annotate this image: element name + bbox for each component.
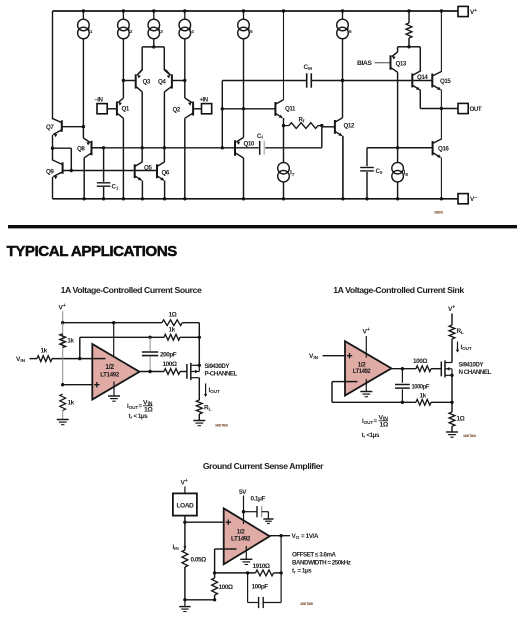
resistor RL c2 [449,325,464,363]
wire I4 to Q2 emitter node [183,39,186,83]
svg-text:IOUT: IOUT [127,403,138,410]
resistor 1910ohm [253,563,283,576]
wire Q11 emitter node [282,118,285,163]
wire VIN input [30,358,38,360]
svg-text:1492 TA05: 1492 TA05 [300,602,313,606]
svg-text:1k: 1k [169,327,176,334]
svg-text:Q12: Q12 [344,123,355,130]
svg-text:100Ω: 100Ω [413,358,427,365]
capacitor C0 [360,148,383,201]
svg-text:= 1V/A: = 1V/A [301,533,319,540]
resistor 1ohm [162,312,199,326]
svg-text:Q3: Q3 [143,79,151,86]
wire resistor to Q14 collector [409,47,420,72]
svg-text:IIN: IIN [173,544,180,551]
svg-text:= 1μs: = 1μs [298,568,313,575]
svg-text:Q11: Q11 [285,106,296,113]
terminal OUT [441,103,481,113]
capacitor 0.1uF [244,496,269,520]
title sense amplifier circuit [203,461,324,471]
wire output c2 [391,367,416,370]
title current source circuit [61,285,202,295]
transistor Q4 [158,70,185,92]
svg-text:RL: RL [204,405,212,413]
ground c3 left [179,600,190,612]
capacitor CM [304,64,313,88]
current source I2 [118,9,133,39]
wire Q12 emitter to V- rail [341,136,344,201]
svg-text:–: – [474,195,477,201]
wire VIN to + input [323,355,346,357]
wire left vertical from V+ rail [52,11,54,120]
wire Q5 emitter to V- rail [141,181,144,201]
arrow IOUT c1 [204,384,220,398]
wire Q9 emitter to V- rail [52,177,54,199]
wire op-amp ground stub [113,382,115,397]
transistor Q2 [173,98,194,118]
label IIN arrow [173,522,187,551]
wire output c3 [270,534,290,573]
resistor RL c1 [196,400,211,420]
label 5V [239,489,247,496]
wire Q9 collector up [52,148,54,160]
wire I3 to Q3/Q4 emitters [138,39,170,75]
label BIAS [357,60,391,67]
svg-text:Si9430DY: Si9430DY [205,363,231,370]
svg-text:1Ω: 1Ω [380,422,389,429]
svg-text:1492 TA03: 1492 TA03 [215,424,228,428]
wire bottom V- rail [53,198,459,200]
svg-text:C0: C0 [376,168,383,175]
resistor RF [284,117,324,129]
svg-text:I6: I6 [347,27,352,35]
ground op-amp c2 [360,392,372,397]
svg-text:LOAD: LOAD [176,503,194,510]
arrow IOUT c2 [456,342,472,353]
svg-text:I5: I5 [248,27,253,35]
wire V+ top rail [53,10,459,12]
svg-text:VIN: VIN [16,356,26,364]
wire shunt to ground [183,567,216,602]
op-amp U1 half LT1492 [92,344,139,400]
svg-text:BIAS: BIAS [357,60,372,67]
current source I5 [238,9,253,39]
resistor 1k feedback [164,327,201,341]
wire top rail c1 [61,321,162,324]
wire Q10 collector to V- rail [242,158,245,201]
wire OUT to Q16 collector [440,109,442,140]
mosfet Q Si9410DY N-channel [441,360,491,377]
notes offset bandwidth [292,552,351,575]
current source I6 [337,9,352,39]
svg-text:1k: 1k [68,400,75,407]
wire Q14-Q15 base link [412,80,432,82]
svg-text:< 1μs: < 1μs [134,413,149,420]
heading TYPICAL APPLICATIONS [7,243,178,260]
svg-text:+: + [452,305,455,311]
label V+ c2 [363,327,370,336]
svg-text:100Ω: 100Ω [219,584,233,591]
svg-text:CM: CM [304,64,313,72]
svg-text:OFFSET ≤ 3.6mA: OFFSET ≤ 3.6mA [292,552,336,559]
wire Q11 base [222,108,275,110]
ground op-amp c3 [240,559,252,564]
capacitor 100pF [248,573,282,608]
wire LOAD to + input [183,516,224,524]
wire divider vertical [61,323,64,387]
resistor R bias [406,9,412,48]
wire CM right segment [311,79,412,82]
svg-text:BANDWIDTH = 250kHz: BANDWIDTH = 250kHz [292,560,351,567]
svg-text:1492 fd: 1492 fd [434,211,443,215]
transistor Q12 [322,118,355,136]
svg-text:Rf: Rf [299,117,305,124]
svg-text:IOUT: IOUT [209,387,220,394]
wire op-amp output [140,370,165,373]
label 1492 TA05 [300,602,313,606]
svg-text:1Ω: 1Ω [457,416,465,423]
wire Q4 collector down [163,92,166,150]
label V+ c3 [181,478,188,487]
label 1492 TA03 [215,424,228,428]
ground RL c1 [193,421,205,426]
formula IOUT c1 [127,400,153,421]
transistor Q6 [157,162,170,180]
svg-text:LT1492: LT1492 [100,371,119,378]
capacitor 200pF [142,337,177,371]
svg-text:1A Voltage-Controlled Current: 1A Voltage-Controlled Current Sink [333,285,464,295]
capacitor CF [235,126,322,155]
wire Q3 collector down [141,92,144,150]
wire op-amp supply drop [113,323,115,361]
current source I4 [179,9,194,39]
svg-text:Q9: Q9 [46,169,54,176]
wire V+ stub [62,311,64,323]
svg-text:C1: C1 [112,184,119,191]
transistor Q1 [117,98,130,118]
svg-text:Q16: Q16 [438,146,449,153]
wire Q16 base node [367,147,433,149]
svg-text:Q8: Q8 [77,146,85,153]
current source I3 [148,9,163,39]
wire op-amp gnd stub c3 [245,546,247,559]
mosfet Q Si9430DY P-channel [187,363,238,380]
resistor 100ohm gate [163,361,187,374]
wire first-stage node [92,146,236,149]
svg-text:Q2: Q2 [173,107,181,114]
capacitor C1 [97,148,119,201]
svg-text:+: + [63,303,66,309]
svg-text:N CHANNEL: N CHANNEL [459,369,492,376]
wire Q5 collector up [141,148,143,162]
wire 5V supply [242,496,245,525]
wire - input feedback c2 [332,382,416,404]
svg-text:1492 TA04: 1492 TA04 [463,434,476,438]
svg-text:tr: tr [129,413,133,420]
svg-text:100pF: 100pF [252,584,269,591]
svg-text:1910Ω: 1910Ω [253,563,270,570]
current source I1 [78,9,93,39]
wire I6 to compensation node [341,39,344,83]
wire V+ stub c2 [365,336,367,358]
svg-text:tr: tr [292,568,296,575]
svg-text:I4: I4 [189,27,194,35]
resistor 1k c2 [416,393,454,406]
wire CM left segment [222,80,306,82]
wire mirror base Q9-Q5-Q6 [71,170,157,172]
ground op-amp c1 [108,396,120,401]
svg-text:tr: tr [362,432,366,439]
transistor Q15 [432,72,451,90]
svg-text:Si9410DY: Si9410DY [459,362,485,369]
svg-text:1k: 1k [67,338,74,345]
wire Q11 collector to rail [282,9,285,99]
input box +IN [193,98,212,114]
svg-text:<1μs: <1μs [367,432,380,439]
svg-text:+: + [185,478,188,484]
transistor Q8 [77,127,104,158]
wire Q2 emitter up [184,81,186,99]
svg-text:0.1μF: 0.1μF [251,496,266,503]
resistor 1k divider bottom [60,394,75,420]
wire right vertical c1 [198,323,200,366]
op-amp U3 half LT1492 [224,508,270,564]
transistor Q5 [135,162,153,180]
wire source down c2 [451,375,453,402]
svg-text:=: = [139,403,143,410]
svg-text:I1: I1 [88,27,93,35]
wire I1 to Q7 base node [82,39,85,129]
wire Q2 collector to V- rail [183,118,186,200]
svg-text:+IN: +IN [200,98,208,104]
label 1492 TA04 [463,434,476,438]
transistor Q10 [235,138,255,159]
svg-text:VO: VO [292,533,300,541]
svg-text:=: = [374,418,378,425]
terminal V+ [458,6,477,16]
svg-text:Q6: Q6 [162,170,170,177]
input box -IN [95,98,117,114]
wire Q6 collector up [163,148,165,162]
transistor Q3 [123,70,150,92]
svg-text:P-CHANNEL: P-CHANNEL [205,371,238,378]
wire Q15 emitter to OUT [440,90,442,109]
svg-text:–IN: –IN [95,98,103,104]
wire + input [63,384,93,386]
wire Q13 collector down [396,72,399,149]
label V+ right c2 [448,305,455,314]
title current sink circuit [333,285,464,295]
current source I8 [392,148,408,201]
svg-text:200pF: 200pF [160,352,177,359]
wire V+ to LOAD [184,487,186,494]
wire - input feedback c3 [213,549,256,575]
resistor 100ohm c2 [413,358,441,372]
wire feedback horizontal [80,336,164,339]
svg-text:Ground Current Sense Amplifier: Ground Current Sense Amplifier [203,461,324,471]
label VIN c2 [309,353,319,361]
svg-text:I2: I2 [128,27,133,35]
svg-text:OUT: OUT [470,106,482,113]
box LOAD [173,493,197,515]
wire Q16 emitter to V- rail [440,158,443,201]
wire Q6 emitter to V- rail [163,181,166,201]
svg-text:100Ω: 100Ω [163,361,177,368]
wire I5 to Q11 base / Q10 emitter [242,39,245,138]
svg-text:RL: RL [457,328,465,336]
resistor 100ohm c3 [212,573,233,600]
capacitor 1000pF [395,369,429,403]
wire drain down [198,378,200,400]
ground divider [57,420,69,425]
transistor Q9 [46,160,71,179]
svg-text:LT1492: LT1492 [353,368,371,375]
svg-text:Q5: Q5 [144,165,152,172]
label VO output [292,533,319,541]
svg-text:1Ω: 1Ω [169,312,177,319]
resistor 1k input [37,348,92,362]
ground cap c3 [263,519,273,523]
wire Q1 collector to V- rail [122,118,125,200]
svg-text:Q15: Q15 [440,78,451,85]
transistor Q11 [275,100,296,118]
wire node to compensation [221,81,224,148]
svg-text:1/2: 1/2 [105,364,114,371]
svg-text:1k: 1k [41,348,48,355]
svg-text:0.05Ω: 0.05Ω [191,557,207,564]
svg-text:5V: 5V [239,489,247,496]
transistor Q7 [46,119,83,138]
transistor Q14 [412,71,428,90]
svg-text:I7: I7 [290,170,295,178]
svg-text:+: + [474,8,477,14]
svg-text:IOUT: IOUT [461,344,472,351]
svg-text:Q4: Q4 [158,79,166,86]
svg-text:1000pF: 1000pF [412,384,430,391]
svg-text:Q13: Q13 [396,61,407,68]
wire Q8 collector to V- rail [83,158,86,201]
svg-text:+: + [367,327,370,333]
ground c2 [446,432,458,437]
wire feedback node vertical [78,337,81,360]
section divider rule [8,225,517,228]
svg-text:TYPICAL APPLICATIONS: TYPICAL APPLICATIONS [7,243,178,260]
svg-text:Q1: Q1 [122,106,130,113]
svg-text:1k: 1k [420,393,427,400]
wire Q12 collector up [342,81,344,118]
current source I7 [278,162,295,200]
label 1492 fd [434,211,443,215]
wire Q1 emitter up [122,81,124,99]
wire Q14 emitter to OUT [420,90,443,111]
svg-text:Cf: Cf [257,133,263,140]
transistor Q16 [433,139,450,158]
wire op-amp gnd stub c2 [365,379,367,392]
wire I2 to Q1 emitter node [122,39,125,83]
label VIN [16,356,26,364]
resistor 1k divider top [60,334,75,348]
wire Q7 emitter to node A [51,135,54,150]
svg-text:Q14: Q14 [417,74,428,81]
svg-text:IOUT: IOUT [362,418,373,425]
svg-text:I8: I8 [404,170,409,178]
svg-text:I3: I3 [158,27,163,35]
svg-text:Q7: Q7 [46,124,54,131]
wire V+ to RL c2 [451,314,453,326]
op-amp U2 half LT1492 [345,341,391,395]
svg-text:Q10: Q10 [244,141,255,148]
resistor 0.05ohm [182,550,206,567]
transistor Q13 [391,47,410,73]
resistor 1ohm c2 [449,402,465,431]
formula IOUT c2 [362,415,389,440]
wire rail to Q15 collector [440,9,443,72]
svg-text:VIN: VIN [309,353,319,361]
svg-text:1A Voltage-Controlled Current: 1A Voltage-Controlled Current Source [61,285,202,295]
label V+ supply [59,303,66,312]
terminal V- [458,194,477,204]
svg-text:LT1492: LT1492 [231,535,251,542]
wire node A branch [53,148,74,172]
